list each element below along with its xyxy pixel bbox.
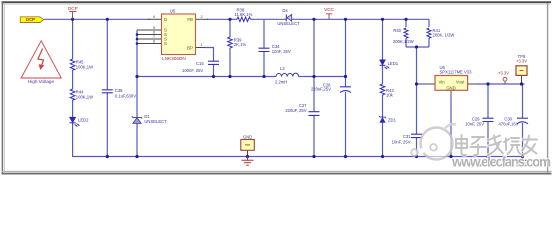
svg-text:2.2mH: 2.2mH — [275, 80, 287, 85]
svg-text:UNSELECT: UNSELECT — [144, 119, 167, 124]
resistor R40 — [393, 28, 414, 44]
svg-text:L2: L2 — [280, 66, 285, 71]
wire: source bus vertical with D1 — [136, 30, 138, 157]
U6 GND pin stub — [450, 90, 452, 97]
svg-text:C15: C15 — [196, 61, 204, 66]
svg-text:2K,1%: 2K,1% — [234, 42, 247, 47]
svg-text:+3.3V: +3.3V — [516, 59, 527, 64]
wire: top rail from DCP port to chip D pin — [44, 18, 150, 20]
test point +3.3V — [498, 71, 509, 84]
GND port stub — [247, 150, 249, 156]
diode D4 (UNSELECT) — [277, 8, 300, 26]
power port VCC — [324, 7, 334, 19]
LED6 — [380, 60, 399, 69]
svg-text:S: S — [164, 41, 167, 46]
wire: L2 right to C28 vertical — [299, 76, 346, 78]
resistor R39 — [228, 37, 247, 48]
wire: top rail from FB pin to R38 — [207, 18, 237, 20]
svg-text:GND: GND — [243, 135, 252, 140]
svg-text:LNK306DN: LNK306DN — [162, 56, 186, 61]
wire: U6 GND to bottom rail — [450, 97, 452, 157]
svg-text:10k: 10k — [386, 93, 394, 98]
wire: Vin feed vertical with C31 — [416, 47, 418, 157]
S pin stubs 5,6,7,8 — [137, 30, 162, 44]
svg-text:High Voltage: High Voltage — [28, 79, 54, 84]
wire: C38 vertical — [106, 19, 108, 156]
svg-text:6: 6 — [153, 30, 155, 34]
wire: BP pin to C15 — [205, 48, 214, 77]
svg-text:220uF, 25V: 220uF, 25V — [285, 108, 306, 113]
svg-text:7: 7 — [153, 35, 155, 39]
resistor R44 — [70, 89, 93, 100]
svg-text:200K, 1/2W: 200K, 1/2W — [433, 33, 455, 38]
zener diode ZD1 — [379, 116, 397, 122]
svg-text:100K,1W: 100K,1W — [76, 64, 93, 69]
wire: R40/R41 bottom tie — [406, 46, 429, 48]
pin 1 stub (BP) — [196, 47, 206, 49]
wire: bottom rail — [72, 156, 523, 158]
capacitor C27 — [285, 103, 319, 115]
capacitor C29 — [465, 117, 493, 127]
svg-text:220uF,25V: 220uF,25V — [311, 86, 331, 91]
svg-text:SPX1117ME V33: SPX1117ME V33 — [440, 69, 473, 74]
pin 4 stub (D) — [148, 18, 162, 20]
svg-text:11.8K,1%: 11.8K,1% — [235, 12, 253, 17]
resistor R41 — [427, 28, 454, 38]
wire: LED6/R43/ZD1 chain vertical — [382, 19, 384, 156]
wire: R41 branch — [428, 19, 430, 47]
port GND with ground symbol — [241, 135, 255, 151]
pin numbers U5 — [153, 15, 203, 47]
capacitor C38 — [102, 88, 136, 99]
voltage regulator U6 SPX1117ME — [435, 65, 472, 90]
svg-text:1: 1 — [201, 43, 203, 47]
capacitor C31 — [392, 134, 422, 145]
svg-text:100K,1W: 100K,1W — [76, 94, 93, 99]
capacitor C15 — [182, 61, 219, 73]
resistor R38 — [235, 7, 253, 21]
svg-text:2: 2 — [201, 15, 203, 19]
high voltage warning triangle — [21, 41, 61, 78]
svg-text:BP: BP — [187, 45, 193, 50]
pin 2 stub (FB) — [196, 18, 209, 20]
svg-text:U5: U5 — [170, 8, 176, 13]
svg-text:C31: C31 — [403, 134, 411, 139]
svg-text:100nF, 25V: 100nF, 25V — [182, 68, 203, 73]
diode D1 (zener, UNSELECT) — [132, 114, 167, 124]
svg-text:D: D — [164, 17, 167, 22]
svg-text:FB: FB — [187, 17, 193, 22]
svg-text:UNSELECT: UNSELECT — [277, 21, 300, 26]
svg-text:+3.3V: +3.3V — [498, 71, 509, 76]
svg-text:D4: D4 — [282, 8, 288, 13]
capacitor C30 (polarized) — [498, 117, 528, 127]
test pad TP9 — [516, 54, 527, 75]
svg-text:Vout: Vout — [456, 79, 465, 84]
svg-text:LED1: LED1 — [388, 61, 399, 66]
wire: C30 vertical — [522, 84, 524, 157]
svg-text:Vin: Vin — [439, 79, 446, 84]
U6 Vin pin stub — [426, 83, 435, 85]
watermark logo circle (elecfans) — [411, 124, 456, 159]
wire: mid rail from source bus to L2 — [137, 76, 276, 78]
svg-text:DCP: DCP — [68, 6, 78, 11]
svg-text:VCC: VCC — [324, 7, 334, 12]
U6 Vout pin stub — [468, 83, 476, 85]
chip pin stubs — [137, 19, 522, 156]
svg-text:ZD1: ZD1 — [388, 117, 397, 122]
wire: C27 vertical from top rail to bottom rail — [313, 19, 315, 156]
watermark chinese glyphs — [456, 135, 537, 155]
svg-text:C38: C38 — [115, 88, 123, 93]
inductor L2 — [275, 66, 299, 85]
LED2 — [70, 117, 90, 126]
resistor R43 — [380, 84, 394, 98]
svg-text:10nF, 25V: 10nF, 25V — [392, 140, 411, 145]
resistor R45 — [70, 59, 93, 70]
sheet border frame — [2, 2, 552, 174]
wire: R39 vertical from FB node to mid rail — [229, 19, 231, 76]
wire: Vin feed to U6 — [417, 83, 427, 85]
TP9 stub — [521, 76, 523, 85]
wire: C28 vertical from top rail to bottom rail — [345, 19, 347, 156]
ground symbol (right, at C30) — [518, 157, 528, 166]
svg-text:4: 4 — [153, 15, 155, 19]
svg-text:R40: R40 — [393, 28, 401, 33]
svg-text:LED2: LED2 — [78, 118, 89, 123]
svg-text:470uF,16V: 470uF,16V — [498, 121, 518, 126]
ground symbol (GND port) — [242, 157, 254, 166]
svg-text:5: 5 — [153, 26, 155, 30]
wire: Vout rail — [476, 83, 525, 85]
svg-text:DCP: DCP — [26, 17, 35, 22]
net label DCP power port — [68, 6, 78, 19]
wire: R40 branch — [405, 19, 407, 47]
capacitor C34 — [259, 44, 291, 54]
svg-text:200K,1/2W: 200K,1/2W — [393, 39, 414, 44]
wire: C29 vertical — [487, 84, 489, 157]
svg-text:www.elecfans.com: www.elecfans.com — [451, 155, 551, 170]
svg-text:GND: GND — [446, 85, 456, 90]
wire: C34 vertical — [263, 19, 265, 76]
wire: left column vertical (R45/R44/LED2 chain) — [72, 19, 74, 156]
svg-text:10nF, 25V: 10nF, 25V — [465, 121, 484, 126]
port DCP — [20, 17, 44, 23]
wire: R38 right to D4 cathode — [251, 18, 278, 20]
svg-text:10nF, 25V: 10nF, 25V — [272, 49, 291, 54]
wire: D4 anode to R41 drop — [292, 18, 429, 20]
svg-text:8: 8 — [153, 39, 155, 43]
capacitor C28 (polarized) — [311, 83, 351, 93]
svg-text:0.1uF,630V: 0.1uF,630V — [115, 93, 136, 98]
IC U5 LNK306DN — [162, 8, 196, 61]
